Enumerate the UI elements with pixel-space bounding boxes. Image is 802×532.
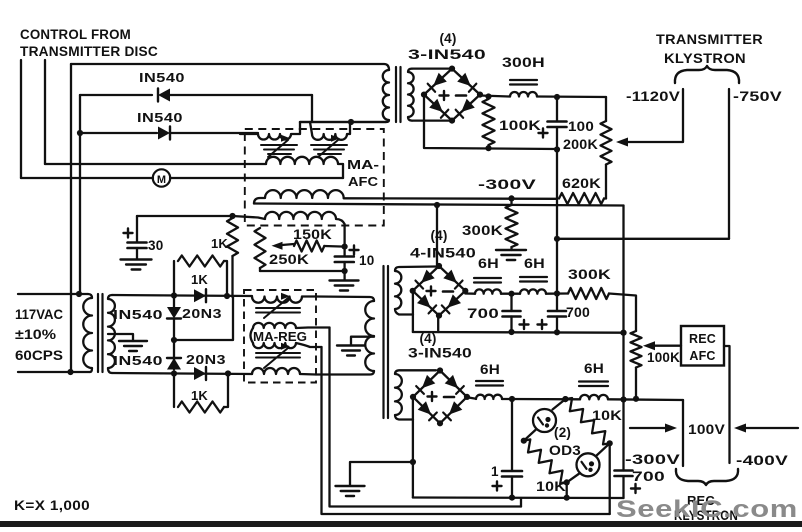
- svg-text:3-IN540: 3-IN540: [408, 47, 486, 62]
- transformer T3 secondary 1: [395, 267, 436, 315]
- pot wiper arrow (100K) from REC AFC: [648, 345, 681, 347]
- svg-text:IN540: IN540: [113, 353, 163, 368]
- wire filter bottom (y=332): [413, 331, 624, 334]
- winding D (MA-AFC): [254, 190, 344, 203]
- junction dot C10 top: [342, 244, 348, 250]
- wire -750V terminal vertical: [728, 89, 730, 239]
- transformer MA-REG dashed box: [244, 290, 316, 383]
- core lines winding A: [261, 144, 297, 146]
- core lines 300H: [510, 79, 537, 81]
- svg-text:300H: 300H: [502, 55, 545, 70]
- junction dot C700b bottom: [554, 329, 560, 335]
- svg-text:1K: 1K: [211, 236, 228, 251]
- wire MA-REG tap upper to bottom (x=329.5): [330, 328, 522, 507]
- ground (C30): [121, 258, 152, 260]
- wire bridge1 right corner to 300H: [480, 96, 510, 97]
- core lines 6H1: [474, 277, 501, 279]
- wire -300V rail (rail1): [344, 197, 557, 200]
- winding MA-REG top (bumps down): [252, 297, 302, 303]
- svg-text:620K: 620K: [562, 176, 601, 191]
- wire 6H3 out: [502, 398, 580, 401]
- label + (C1): [493, 485, 502, 487]
- winding MA-REG bottom (bumps up): [252, 368, 300, 374]
- wire T2 primary bottom (y=122): [300, 121, 386, 123]
- resistor R 1K (vertical): [227, 218, 238, 256]
- core lines 6H3: [476, 380, 503, 382]
- wire 300H to 200K: [537, 95, 606, 98]
- junction dot rail2/filter bottom: [620, 330, 626, 336]
- block REC AFC box: [681, 326, 724, 366]
- label + (C10): [350, 249, 359, 251]
- junction dot MA-AFC top link: [348, 119, 354, 125]
- svg-text:REC: REC: [689, 332, 716, 346]
- wire 20N3 bypass: [174, 297, 233, 340]
- wire rail jog to MA-REG upper return: [520, 498, 522, 507]
- diode CR4 (on y373 wire, points right): [194, 367, 206, 380]
- transformer T2 primary: [383, 70, 389, 122]
- wire bridge1 left corner down: [424, 96, 557, 150]
- transformer T2 core: [395, 67, 397, 122]
- svg-text:TRANSMITTER DISC: TRANSMITTER DISC: [20, 44, 158, 59]
- label + (bridge1): [440, 94, 449, 96]
- capacitor C 700 (c): [615, 469, 633, 472]
- resistor R 100K (vertical): [483, 99, 495, 145]
- svg-text:AFC: AFC: [348, 174, 379, 189]
- svg-text:MA-REG: MA-REG: [253, 330, 307, 344]
- wire 1K/C30 top link: [137, 215, 233, 217]
- svg-text:SeekIC.com: SeekIC.com: [616, 496, 798, 523]
- capacitor C 100: [556, 97, 558, 122]
- wire 6H4 out to 100V corner: [608, 398, 683, 401]
- wire OD3-1 to left node: [524, 429, 537, 441]
- wire 6H2 out: [546, 292, 568, 295]
- wire 6H1 to 6H2: [501, 293, 520, 295]
- svg-text:150K: 150K: [293, 227, 332, 242]
- wire bridge2 top to rail2: [436, 205, 438, 266]
- junction dot rail2/6H4: [620, 396, 626, 402]
- capacitor C 700 (b): [556, 294, 558, 312]
- wire OD3 bottom stub: [566, 482, 568, 497]
- wire MA-REG bottom out to T3: [316, 371, 374, 375]
- core lines MA-REG top: [256, 307, 300, 309]
- inductor L 6H (2): [520, 289, 546, 293]
- svg-text:20N3: 20N3: [186, 352, 226, 367]
- svg-text:300K: 300K: [568, 267, 611, 282]
- svg-text:±10%: ±10%: [15, 327, 56, 342]
- pot wiper arrow (200K) from -1120V: [622, 89, 683, 142]
- svg-text:700: 700: [467, 306, 499, 321]
- potentiometer R 200K: [601, 121, 612, 165]
- wire to MA-AFC winding C: [45, 163, 266, 165]
- capacitor C 10uF: [343, 247, 345, 256]
- wire bridge3 ground link: [350, 462, 413, 486]
- diode D1 1N540 (points left): [158, 89, 170, 102]
- brace transmitter klystron: [675, 66, 739, 83]
- junction dot C100 bottom: [554, 146, 560, 152]
- svg-text:6H: 6H: [478, 256, 499, 271]
- label + (C30): [124, 232, 133, 234]
- junction dot OD3 top: [562, 396, 568, 402]
- transformer T3 center tap: [351, 337, 374, 345]
- wire rail2: [254, 204, 624, 206]
- svg-text:700: 700: [632, 469, 665, 484]
- junction dot bridge2-top tap: [434, 202, 440, 208]
- svg-text:10: 10: [359, 253, 374, 268]
- junction dots zener string: [171, 292, 177, 298]
- ground (C10): [343, 271, 345, 280]
- winding E (MA-AFC): [233, 212, 345, 247]
- wire -750V horizontal: [557, 238, 729, 240]
- core lines MA-REG bottom: [256, 352, 300, 354]
- svg-text:250K: 250K: [269, 252, 309, 267]
- wire -750V node vertical: [556, 150, 558, 239]
- rectifier bridge CR6 (4) 4-IN540: [413, 266, 466, 316]
- junction dot filter mid: [508, 291, 514, 297]
- junction dot 100K top: [485, 93, 491, 99]
- wire bridge3 left corner down: [412, 397, 414, 462]
- pot wiper arrow (250K): [276, 244, 294, 246]
- regulator tube V2 OD3: [577, 453, 600, 476]
- wire top horizontal to T2 primary: [71, 64, 389, 70]
- label + (C100): [539, 132, 548, 134]
- wire control line 2 (x=45): [44, 60, 46, 164]
- svg-text:1K: 1K: [191, 272, 208, 287]
- core lines winding B: [311, 144, 347, 146]
- label + (700c): [631, 487, 640, 489]
- junction dot pot bottom: [633, 396, 639, 402]
- junction dot 117VAC top / control: [76, 291, 82, 297]
- label + + (700 caps): [520, 323, 529, 325]
- transformer T1 secondary: [108, 295, 115, 373]
- label + (bridge3): [428, 395, 437, 397]
- bottom scan bar: [0, 521, 802, 527]
- transformer T1 primary: [83, 294, 92, 372]
- diode CR 20N3 top (points down): [173, 295, 175, 307]
- svg-text:117VAC: 117VAC: [15, 307, 63, 322]
- junction dot C700a bottom: [508, 329, 514, 335]
- ground (T3 center tap): [337, 344, 365, 346]
- junction dot winding-E/1K tap: [229, 213, 235, 219]
- winding C (MA-AFC): [266, 157, 343, 164]
- wire motor line: [21, 177, 153, 179]
- arrow 100V left: [630, 427, 672, 429]
- wire REC AFC right down: [724, 346, 730, 463]
- junction dot bridge3 ground node: [410, 459, 416, 465]
- slug arrow winding A: [268, 140, 288, 157]
- junction dot y295 right: [224, 293, 230, 299]
- svg-text:(4): (4): [430, 228, 447, 243]
- svg-text:300K: 300K: [462, 223, 503, 238]
- resistor R 300K (vertical): [510, 198, 512, 205]
- resistor R 150K: [294, 241, 324, 252]
- diode CR3 (on y295 wire, points right): [194, 289, 206, 302]
- wire 117VAC bottom: [18, 371, 90, 373]
- wire rail2 down (x=623.5): [622, 206, 624, 471]
- svg-text:-300V: -300V: [478, 177, 536, 192]
- wire T2 sec top to bridge1: [412, 67, 452, 69]
- diode D1 1N540 wire: [80, 94, 152, 96]
- wire bottom rail (bridge3 return): [413, 496, 624, 499]
- resistor R 1K (top loop): [173, 261, 175, 296]
- svg-text:100K: 100K: [647, 350, 680, 365]
- resistor R 250K (pot): [255, 228, 266, 268]
- diode CR 20N3 bottom (points up): [173, 340, 175, 370]
- wire MA-REG tap lower to bottom (x=321.5): [322, 347, 610, 514]
- capacitor C 700 (a): [510, 294, 512, 311]
- ground (bridge3): [336, 485, 365, 487]
- svg-text:MA-: MA-: [347, 157, 379, 172]
- wire T1 secondary bottom (y=373): [112, 373, 252, 374]
- svg-text:M: M: [157, 174, 166, 186]
- svg-text:AFC: AFC: [689, 349, 715, 363]
- svg-text:100V: 100V: [688, 422, 725, 437]
- wire bridge2 bottom corner down: [437, 316, 439, 332]
- junction dot 117VAC bottom / top-line: [67, 369, 73, 375]
- wire MA-REG top out to T3: [316, 297, 374, 302]
- svg-text:IN540: IN540: [137, 110, 183, 125]
- svg-text:IN540: IN540: [139, 70, 185, 85]
- diode D2 1N540 (points right): [158, 127, 170, 140]
- svg-text:1: 1: [491, 464, 499, 479]
- wire rail up to C700c: [622, 477, 624, 498]
- wire OD3-2 to bottom node: [567, 473, 580, 482]
- svg-text:OD3: OD3: [549, 443, 581, 458]
- transformer T2 secondary: [408, 69, 414, 121]
- svg-text:10K: 10K: [536, 479, 566, 494]
- svg-text:700: 700: [566, 305, 590, 320]
- transformer T3 secondary 2: [395, 370, 436, 419]
- svg-text:IN540: IN540: [113, 307, 163, 322]
- core lines 6H2: [520, 276, 547, 278]
- wire control line 1 (x=21): [20, 60, 22, 178]
- svg-text:(4): (4): [419, 331, 436, 346]
- svg-text:6H: 6H: [480, 362, 500, 377]
- junction dot OD3 bottom rail: [564, 495, 570, 501]
- inductor L 6H (1): [475, 289, 501, 293]
- junction dot -750V wire: [554, 236, 560, 242]
- winding A (MA-AFC tuned): [240, 122, 300, 140]
- ground (T1 center tap): [119, 340, 147, 342]
- junction dot 100K pot top: [620, 330, 626, 336]
- motor M1: [153, 169, 170, 186]
- label - (bridge3): [444, 396, 454, 399]
- junction dot D2 wire: [77, 130, 83, 136]
- inductor L 6H (4): [580, 395, 608, 399]
- resistor R 300K (horizontal): [568, 288, 609, 299]
- inductor L 6H (3): [476, 395, 502, 399]
- resistor R 10K (lower diag): [524, 439, 567, 483]
- junction dot C10 bottom: [342, 268, 348, 274]
- rectifier bridge CR5 (4) 3-IN540: [424, 69, 480, 121]
- resistor R 620K: [605, 165, 607, 199]
- label + (bridge2): [427, 290, 436, 292]
- svg-text:10K: 10K: [592, 408, 622, 423]
- svg-text:100: 100: [568, 119, 594, 134]
- svg-text:20N3: 20N3: [182, 306, 222, 321]
- diode D2 1N540 wire: [80, 132, 157, 134]
- svg-text:200K: 200K: [563, 137, 598, 152]
- wire bridge2 left corner loop: [412, 291, 414, 332]
- capacitor C 1uF: [511, 399, 513, 471]
- wire OD3-2 to right node: [596, 443, 610, 456]
- slug arrow winding B: [318, 140, 338, 157]
- rectifier bridge CR7 (4) 3-IN540: [413, 371, 467, 424]
- svg-text:K=X 1,000: K=X 1,000: [14, 498, 90, 513]
- core lines 6H4: [579, 380, 608, 382]
- junction dot y373 right: [225, 370, 231, 376]
- junction dot C100 top: [554, 94, 560, 100]
- wire winding-C right end to motor line: [342, 164, 344, 178]
- inductor L 300H: [510, 92, 537, 97]
- svg-text:(4): (4): [439, 31, 456, 46]
- wire bridge3 left vertical to rail: [412, 462, 414, 498]
- resistor R 10K (upper diag): [565, 398, 609, 444]
- junction dot 100K bottom: [485, 145, 491, 151]
- svg-text:100K: 100K: [499, 118, 541, 133]
- junction dot rail1/300K: [508, 195, 514, 201]
- svg-text:30: 30: [148, 238, 163, 253]
- wire MA-AFC top link: [300, 121, 386, 123]
- transformer T3 core: [382, 266, 384, 418]
- svg-text:TRANSMITTER: TRANSMITTER: [656, 32, 763, 47]
- brace rec klystron: [676, 469, 738, 485]
- winding B (MA-AFC tuned): [310, 122, 350, 140]
- capacitor C 30uF: [136, 216, 138, 242]
- svg-text:KLYSTRON: KLYSTRON: [664, 51, 746, 66]
- wire control line 3 / top line down (x=71): [70, 64, 72, 372]
- svg-text:-1120V: -1120V: [626, 89, 680, 104]
- junction dot C1 bottom: [509, 495, 515, 501]
- slug arrow MA-REG top: [264, 298, 288, 318]
- wire D1 right end down into winding B: [311, 95, 313, 122]
- arrow 100V right: [739, 427, 798, 429]
- junction dots OD3 nodes: [562, 396, 568, 402]
- svg-text:60CPS: 60CPS: [15, 348, 63, 363]
- svg-text:-400V: -400V: [736, 453, 788, 468]
- potentiometer R 100K: [631, 331, 642, 368]
- transformer MA-AFC dashed box: [245, 129, 384, 226]
- regulator tube V1 OD3: [533, 409, 556, 432]
- svg-text:6H: 6H: [584, 361, 604, 376]
- svg-text:4-IN540: 4-IN540: [410, 246, 476, 261]
- junction dot 300K-left: [554, 290, 560, 296]
- transformer T1 core: [97, 294, 99, 372]
- svg-text:1K: 1K: [191, 388, 208, 403]
- svg-text:(2): (2): [554, 425, 571, 440]
- wire right node down to lower rail: [609, 443, 611, 514]
- junction dot C1 top: [509, 396, 515, 402]
- svg-text:6H: 6H: [524, 256, 545, 271]
- wire vertical x=80 (D1/D2 to transformer): [79, 95, 81, 294]
- ground (300K): [496, 249, 526, 251]
- wire T1 center tap: [108, 334, 133, 341]
- wire 117VAC top: [18, 293, 88, 295]
- wire T1 secondary top (y=295): [112, 295, 252, 296]
- svg-text:-750V: -750V: [733, 89, 782, 104]
- wire T2 sec bottom to bridge1: [412, 119, 452, 121]
- transformer T3 primary: [365, 301, 374, 371]
- label - (bridge1): [456, 94, 466, 97]
- slug arrow MA-REG bottom: [264, 348, 288, 368]
- resistor R 1K (bottom loop): [173, 374, 175, 408]
- wire bridge2 right to 6H: [465, 292, 475, 295]
- wire bridge3 right out: [467, 397, 476, 399]
- label - (bridge2): [443, 290, 453, 293]
- svg-text:3-IN540: 3-IN540: [408, 346, 472, 361]
- svg-text:CONTROL FROM: CONTROL FROM: [20, 27, 131, 42]
- winding MA-REG middle (oval): [253, 323, 296, 328]
- wire OD3-1 to top node: [553, 399, 566, 409]
- svg-text:-300V: -300V: [625, 452, 680, 467]
